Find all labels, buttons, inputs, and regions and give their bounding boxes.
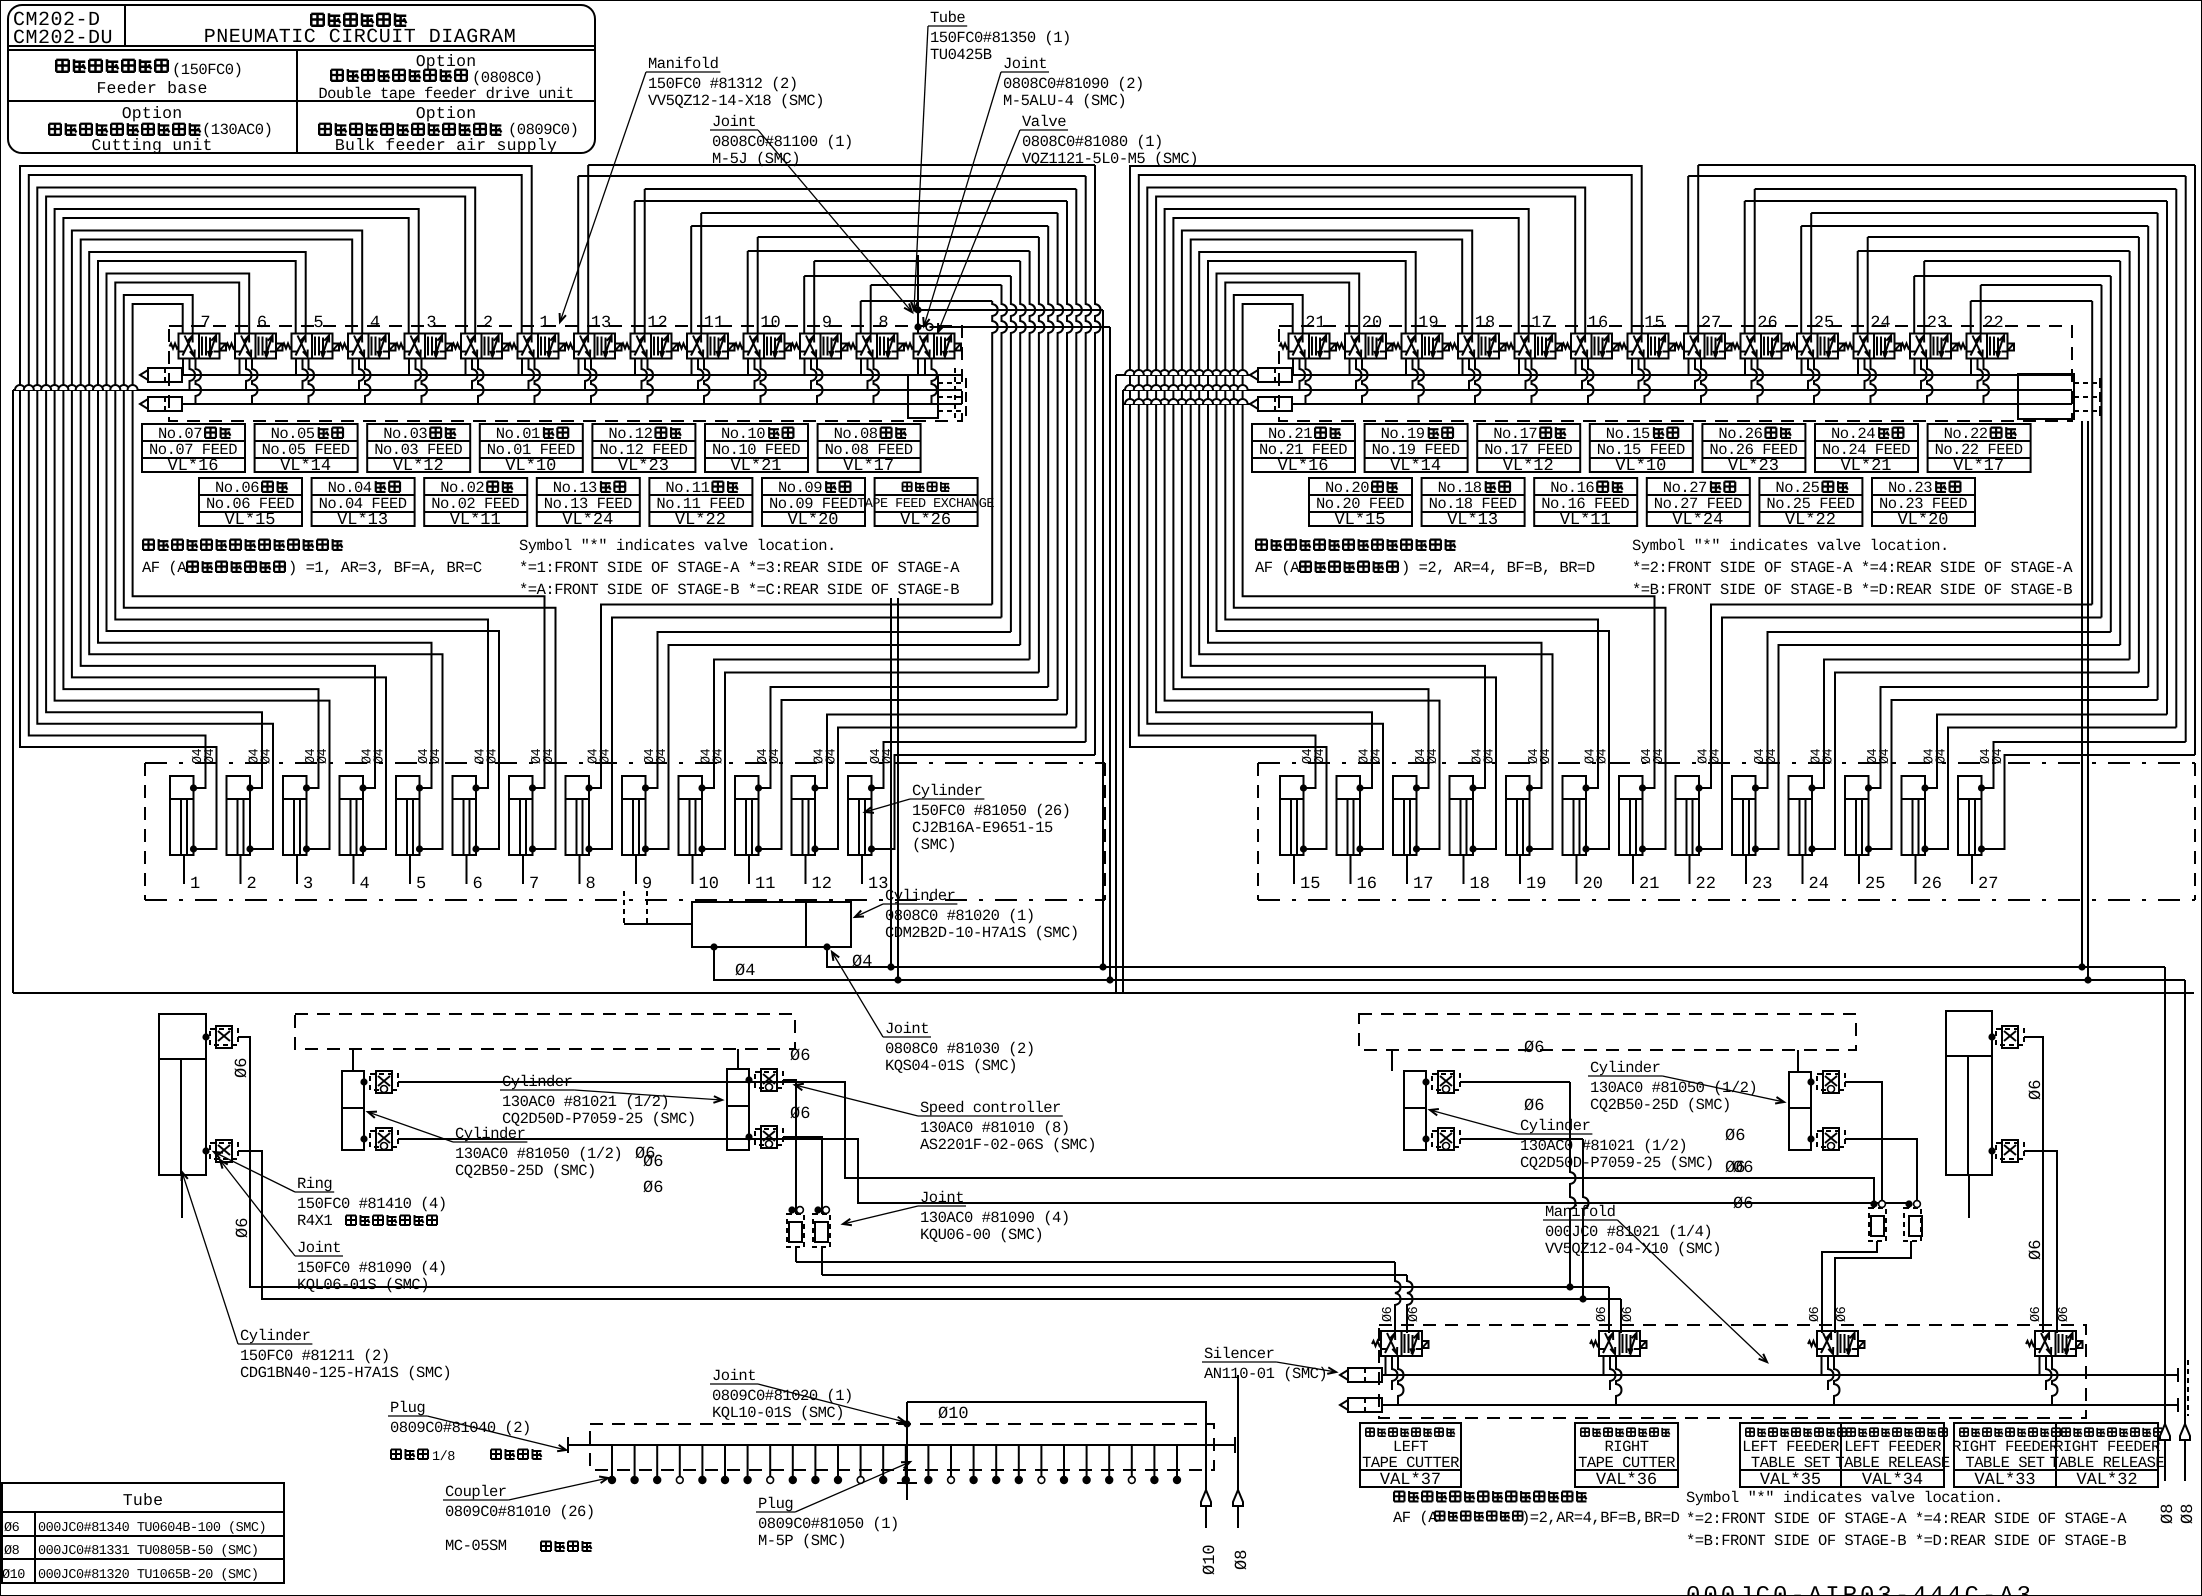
valve VL 7 [179,334,220,359]
svg-text:8: 8 [878,314,888,333]
bottom valve group dashed box [1379,1325,2086,1418]
cylinder 8 [566,776,590,855]
wire valve 23 right-stub to cylinder bottom port [1923,261,1925,334]
valve VL 13 [574,334,615,359]
node: tube/joint/valve junction [917,255,919,334]
svg-text:4: 4 [360,875,370,894]
svg-text:VL*24: VL*24 [562,511,613,530]
svg-text:Option: Option [416,104,477,123]
valve VL 27 [1684,334,1725,359]
svg-text:130AC0 #81010 (8): 130AC0 #81010 (8) [920,1119,1070,1137]
wire valve 21 left-stub to cylinder top port [1243,304,1655,788]
wire valve 27 right-stub to cylinder bottom port [1697,165,1699,334]
svg-text:TU0425B: TU0425B [930,46,992,64]
svg-text:130AC0 #81050 (1/2): 130AC0 #81050 (1/2) [1590,1079,1757,1097]
svg-text:4: 4 [370,314,380,333]
svg-text:18: 18 [1475,314,1495,333]
valve VL 9 [800,334,841,359]
svg-text:TABLE SET: TABLE SET [1751,1454,1830,1472]
cylinder 21 [1619,776,1643,855]
wire valve 24 left-stub to cylinder top port [1857,251,1859,334]
valve VL 25 [1797,334,1838,359]
speed controller G [1432,1074,1460,1090]
svg-text:KQL10-01S (SMC): KQL10-01S (SMC) [712,1404,844,1422]
svg-text:Valve: Valve [1022,113,1066,131]
wire valve 10 right-stub to cylinder bottom port [757,237,759,334]
svg-text:Ø4: Ø4 [825,748,840,764]
arrows bottom middle [1201,1490,1211,1528]
cylinder bank dashed boundary right [1258,762,2195,764]
svg-text:Ø4: Ø4 [1426,748,1441,764]
bottom buses + silencers [1340,1370,1348,1380]
wire valve 18 left-stub to cylinder top port [1191,240,1485,789]
svg-text:130AC0 #81021 (1/2): 130AC0 #81021 (1/2) [502,1093,669,1111]
svg-text:3: 3 [426,314,436,333]
svg-text:VAL*32: VAL*32 [2076,1471,2137,1490]
svg-text:VL*15: VL*15 [224,511,275,530]
svg-text:TABLE SET: TABLE SET [1965,1454,2044,1472]
svg-text:VAL*37: VAL*37 [1380,1471,1441,1490]
cylinder 24 [1789,776,1813,855]
svg-text:Ø4: Ø4 [712,748,727,764]
cylinder 19 [1506,776,1530,855]
wire valve 3 left-stub to cylinder top port [63,218,408,788]
svg-text:0809C0#81040 (2): 0809C0#81040 (2) [390,1419,531,1437]
svg-text:TAPE CUTTER: TAPE CUTTER [1362,1454,1459,1472]
svg-text:Tube: Tube [123,1491,163,1510]
svg-text:VL*23: VL*23 [1728,457,1779,476]
svg-text:Cylinder: Cylinder [502,1073,572,1091]
svg-text:VL*22: VL*22 [1785,511,1836,530]
svg-text:23: 23 [1752,875,1772,894]
svg-text:KQL06-01S (SMC): KQL06-01S (SMC) [297,1276,429,1294]
svg-text:9: 9 [822,314,832,333]
svg-text:R4X1: R4X1 [297,1212,332,1230]
wires down from right manifold block [2081,421,2083,967]
right small cylinder of left section [727,1069,749,1150]
svg-text:130AC0 #81050 (1/2): 130AC0 #81050 (1/2) [455,1145,622,1163]
wires right section [1460,1081,1570,1083]
svg-text:27: 27 [1701,314,1721,333]
svg-text:130AC0 #81021 (1/2): 130AC0 #81021 (1/2) [1520,1137,1687,1155]
svg-text:VL*12: VL*12 [1503,457,1554,476]
svg-text:150FC0 #81312 (2): 150FC0 #81312 (2) [648,75,798,93]
svg-text:Joint: Joint [712,1367,756,1385]
cylinder 12 [792,776,816,855]
valve VL 6 [235,334,276,359]
svg-text:*=2:FRONT SIDE OF STAGE-A *=4: *=2:FRONT SIDE OF STAGE-A *=4:REAR SIDE … [1632,559,2073,577]
svg-text:Ø4: Ø4 [735,962,755,981]
svg-text:6: 6 [257,314,267,333]
svg-text:000JC0#81340 TU0604B-100 (SMC): 000JC0#81340 TU0604B-100 (SMC) [38,1521,266,1536]
supply muffler 1 [1250,370,1258,380]
cylinder 27 [1958,776,1982,855]
wire valve 2 right-stub to cylinder bottom port [37,188,475,850]
svg-text:VAL*34: VAL*34 [1862,1471,1923,1490]
svg-text:PNEUMATIC CIRCUIT DIAGRAM: PNEUMATIC CIRCUIT DIAGRAM [204,26,517,49]
wire valve 4 left-stub to cylinder top port [81,240,375,789]
svg-text:Ø4: Ø4 [1935,748,1950,764]
svg-text:0808C0#81100 (1): 0808C0#81100 (1) [712,133,853,151]
svg-text:CJ2B16A-E9651-15: CJ2B16A-E9651-15 [912,819,1053,837]
svg-text:0808C0#81080 (1): 0808C0#81080 (1) [1022,133,1163,151]
title block [8,5,595,153]
cylinder 13 [848,776,872,855]
svg-text:VAL*36: VAL*36 [1596,1471,1657,1490]
valve VL 24 [1854,334,1895,359]
wire valve 1 left-stub to cylinder top port [29,175,522,788]
speed controller J [1817,1131,1845,1147]
svg-text:Ø4: Ø4 [1991,748,2006,764]
notes text [143,540,154,550]
wire valve 12 right-stub to cylinder bottom port [644,189,646,334]
svg-text:11: 11 [704,314,724,333]
svg-text:CM202-DU: CM202-DU [13,27,113,50]
wire valve 24 right-stub to cylinder bottom port [1867,237,1869,334]
svg-text:) =2, AR=4, BF=B, BR=D: ) =2, AR=4, BF=B, BR=D [1401,559,1595,577]
svg-text:7: 7 [529,875,539,894]
valve VL 16 [1571,334,1612,359]
svg-text:000JC0-AIR03-444C-A3: 000JC0-AIR03-444C-A3 [1686,1583,2034,1596]
valve VL 22 [1967,334,2008,359]
svg-text:3: 3 [303,875,313,894]
svg-text:Ø4: Ø4 [768,748,783,764]
cylinder 22 [1676,776,1700,855]
svg-text:Cutting unit: Cutting unit [91,136,212,155]
svg-text:12: 12 [647,314,667,333]
svg-text:Ring: Ring [297,1175,332,1193]
svg-text:VL*23: VL*23 [618,457,669,476]
svg-text:Ø10: Ø10 [938,1405,969,1424]
cylinder CQ2B50 right [1404,1071,1426,1150]
svg-text:Tube: Tube [930,9,965,27]
cylinder 0808C0 (horizontal) [692,902,851,947]
wires joints to valves [1822,1241,1877,1333]
svg-text:130AC0 #81090 (4): 130AC0 #81090 (4) [920,1209,1070,1227]
svg-text:Ø6: Ø6 [2029,1306,2044,1322]
svg-text:Ø4: Ø4 [316,748,331,764]
svg-text:Ø4: Ø4 [1370,748,1385,764]
wire valve 21 right-stub to cylinder bottom port [1234,295,1666,849]
cylinder 1 [170,776,194,855]
svg-text:7: 7 [200,314,210,333]
svg-text:Ø4: Ø4 [1313,748,1328,764]
svg-text:Coupler: Coupler [445,1483,507,1501]
svg-text:KQU06-00 (SMC): KQU06-00 (SMC) [920,1226,1043,1244]
valve VL 23 [1910,334,1951,359]
svg-text:VV5QZ12-04-X10 (SMC): VV5QZ12-04-X10 (SMC) [1545,1240,1721,1258]
cylinder 10 [679,776,703,855]
cylinder 23 [1732,776,1756,855]
tall cylinder right [1946,1011,1992,1175]
joint box KQU06 1 [787,1214,804,1247]
svg-text:Double tape feeder drive unit: Double tape feeder drive unit [318,85,573,103]
wire valve 22 left-stub to cylinder top port [1970,301,1972,334]
wire valve 6 left-stub to cylinder top port [115,283,488,789]
svg-text:MC-05SM: MC-05SM [445,1537,507,1555]
svg-text:VL*13: VL*13 [337,511,388,530]
svg-text:Ø6: Ø6 [635,1145,655,1164]
svg-text:VL*20: VL*20 [787,511,838,530]
svg-text:Ø4: Ø4 [373,748,388,764]
long wires to bottom-right valves [796,1261,1395,1263]
svg-text:CDM2B2D-10-H7A1S (SMC): CDM2B2D-10-H7A1S (SMC) [885,924,1079,942]
svg-text:VL*21: VL*21 [1840,457,1891,476]
svg-text:12: 12 [812,875,832,894]
valve VL 18 [1458,334,1499,359]
wire valve 18 right-stub to cylinder bottom port [1182,231,1496,850]
coupler drops [611,1445,613,1476]
wire from ports [714,947,2185,980]
svg-text:(SMC): (SMC) [912,836,956,854]
wire valve 11 left-stub to cylinder top port [690,226,692,334]
svg-text:22: 22 [1696,875,1716,894]
bottom-right notes [1394,1492,1404,1502]
bottom valve 2 [1599,1331,1640,1356]
svg-text:0809C0#81010 (26): 0809C0#81010 (26) [445,1503,595,1521]
svg-text:VL*10: VL*10 [505,457,556,476]
svg-text:AF (A: AF (A [1393,1509,1438,1527]
inter-block verticals [1102,310,1104,967]
svg-text:Speed controller: Speed controller [920,1099,1061,1117]
cylinder 26 [1902,776,1926,855]
svg-text:Ø6: Ø6 [1524,1097,1544,1116]
svg-text:AS2201F-02-06S (SMC): AS2201F-02-06S (SMC) [920,1136,1096,1154]
svg-text:Cylinder: Cylinder [912,782,982,800]
svg-text:Plug: Plug [758,1495,793,1513]
svg-text:16: 16 [1588,314,1608,333]
svg-text:)=2,AR=4,BF=B,BR=D: )=2,AR=4,BF=B,BR=D [1521,1509,1680,1527]
wire valve 7 right-stub to cylinder bottom port [124,295,556,849]
cylinder 9 [622,776,646,855]
wire valve 3 right-stub to cylinder bottom port [55,209,419,849]
valve VL 11 [687,334,728,359]
svg-text:TAPE FEED EXCHANGE: TAPE FEED EXCHANGE [857,497,994,512]
wire to bottom right arrows [2164,967,2166,1424]
wires from small cyl controllers [398,1082,1874,1208]
wire valve 13 right-stub to cylinder bottom port [587,165,589,334]
cylinder bank dashed boundary left [145,762,1105,764]
svg-text:Manifold: Manifold [1545,1203,1615,1221]
valve VL 15 [1628,334,1669,359]
coupler rail [568,1444,1235,1446]
svg-text:Cylinder: Cylinder [240,1327,310,1345]
svg-text:11: 11 [755,875,775,894]
svg-text:Joint: Joint [920,1189,964,1207]
cylinder 6 [453,776,477,855]
svg-text:VV5QZ12-14-X18 (SMC): VV5QZ12-14-X18 (SMC) [648,92,824,110]
bottom valve 1 [1381,1331,1422,1356]
svg-text:Ø6: Ø6 [643,1179,663,1198]
svg-text:Ø8: Ø8 [2179,1504,2198,1524]
notes text [1256,540,1267,550]
speed controller L [1996,1143,2024,1159]
label boxes row2 [199,478,302,526]
wire valve 7 left-stub to cylinder top port [133,304,545,788]
svg-text:000JC0#81331 TU0805B-50 (SMC): 000JC0#81331 TU0805B-50 (SMC) [38,1544,258,1559]
svg-text:CQ2D50D-P7059-25 (SMC): CQ2D50D-P7059-25 (SMC) [1520,1154,1714,1172]
wire valve 15 left-stub to cylinder top port [1139,175,1632,788]
svg-text:0808C0 #81020 (1): 0808C0 #81020 (1) [885,907,1035,925]
svg-text:M-5ALU-4 (SMC): M-5ALU-4 (SMC) [1003,92,1126,110]
val label boxes [1360,1423,1461,1487]
svg-text:VL*20: VL*20 [1897,511,1948,530]
valve manifold dashed boundary [1279,326,2072,421]
wire valve 19 left-stub to cylinder top port [1208,261,1542,788]
svg-text:150FC0#81350 (1): 150FC0#81350 (1) [930,29,1071,47]
joint KQL10 node [903,1420,910,1427]
wires to joint boxes [783,1080,796,1214]
svg-text:24: 24 [1870,314,1890,333]
svg-text:CQ2B50-25D (SMC): CQ2B50-25D (SMC) [1590,1096,1731,1114]
svg-text:CDG1BN40-125-H7A1S (SMC): CDG1BN40-125-H7A1S (SMC) [240,1364,451,1382]
svg-text:15: 15 [1644,314,1664,333]
svg-text:) =1, AR=3, BF=A, BR=C: ) =1, AR=3, BF=A, BR=C [288,559,482,577]
svg-text:Ø6: Ø6 [1733,1195,1753,1214]
speed controller B [210,1143,238,1159]
svg-text:*=B:FRONT SIDE OF STAGE-B *=D: *=B:FRONT SIDE OF STAGE-B *=D:REAR SIDE … [1686,1532,2126,1550]
svg-text:20: 20 [1362,314,1382,333]
svg-text:VL*14: VL*14 [1390,457,1441,476]
svg-text:VL*16: VL*16 [1277,457,1328,476]
svg-text:1: 1 [539,314,549,333]
svg-text:17: 17 [1413,875,1433,894]
svg-text:2: 2 [247,875,257,894]
svg-text:VL*17: VL*17 [843,457,894,476]
svg-text:Option: Option [416,52,477,71]
svg-text:Ø10: Ø10 [2,1568,25,1583]
svg-text:Symbol "*" indicates valve loc: Symbol "*" indicates valve location. [1632,537,1949,555]
speed controller E [755,1072,783,1088]
svg-text:Cylinder: Cylinder [885,887,955,905]
svg-text:17: 17 [1531,314,1551,333]
svg-text:Ø4: Ø4 [1822,748,1837,764]
svg-text:CQ2B50-25D (SMC): CQ2B50-25D (SMC) [455,1162,596,1180]
svg-text:VQZ1121-5L0-M5 (SMC): VQZ1121-5L0-M5 (SMC) [1022,150,1198,168]
svg-text:Symbol "*" indicates valve loc: Symbol "*" indicates valve location. [1686,1489,2003,1507]
svg-text:5: 5 [416,875,426,894]
svg-text:Bulk feeder air supply: Bulk feeder air supply [335,136,557,155]
cylinder 15 [1280,776,1304,855]
speed controller K [1996,1029,2024,1045]
wire valve 8 right-stub to cylinder bottom port [870,285,872,334]
svg-text:27: 27 [1978,875,1998,894]
wire valve 9 left-stub to cylinder top port [803,276,805,334]
muffler line extensions with hops [1116,374,1250,376]
svg-text:VAL*35: VAL*35 [1760,1471,1821,1490]
svg-text:23: 23 [1927,314,1947,333]
plug M-5P [897,1482,917,1484]
speed controller C [370,1074,398,1090]
svg-text:150FC0 #81050 (26): 150FC0 #81050 (26) [912,802,1070,820]
svg-text:Ø6: Ø6 [1407,1306,1422,1322]
svg-text:Ø4: Ø4 [260,748,275,764]
label boxes row1 [1252,424,1355,472]
wire valve 26 right-stub to cylinder bottom port [1754,189,1756,334]
svg-text:6: 6 [473,875,483,894]
svg-text:VL*11: VL*11 [450,511,501,530]
valve manifold dashed boundary [169,326,962,421]
bus with hops [13,389,962,391]
wire valve 20 left-stub to cylinder top port [1225,283,1598,789]
wire valve 5 left-stub to cylinder top port [98,261,432,788]
svg-text:Ø4: Ø4 [1765,748,1780,764]
svg-text:26: 26 [1757,314,1777,333]
svg-text:Ø6: Ø6 [1621,1306,1636,1322]
cylinder 3 [283,776,307,855]
svg-text:TABLE RELEASE: TABLE RELEASE [2050,1454,2165,1472]
svg-text:21: 21 [1639,875,1659,894]
wire valve 19 right-stub to cylinder bottom port [1199,252,1552,849]
valve VL 10 [744,334,785,359]
svg-text:22: 22 [1983,314,2003,333]
cylinder 4 [340,776,364,855]
cylinder CDG1BN40 (tall, left) [159,1014,206,1175]
svg-text:Cylinder: Cylinder [1590,1059,1660,1077]
svg-text:15: 15 [1300,875,1320,894]
wire valve 17 left-stub to cylinder top port [1173,218,1518,788]
valve VL 26 [1741,334,1782,359]
wire valve 11 right-stub to cylinder bottom port [700,213,702,334]
svg-text:Ø6: Ø6 [1835,1306,1850,1322]
svg-text:M-5P (SMC): M-5P (SMC) [758,1532,846,1550]
svg-text:Ø8: Ø8 [1233,1550,1252,1570]
svg-text:25: 25 [1865,875,1885,894]
svg-text:VL*26: VL*26 [900,511,951,530]
cylinder 25 [1845,776,1869,855]
valve VL 4 [348,334,389,359]
cylinder 20 [1563,776,1587,855]
wire valve 8 left-stub to cylinder top port [860,301,862,334]
bottom right arrows [2160,1424,2170,1481]
svg-text:000JC0#81320 TU1065B-20 (SMC): 000JC0#81320 TU1065B-20 (SMC) [38,1568,258,1583]
wire valve 5 right-stub to cylinder bottom port [89,252,442,849]
svg-text:Ø6: Ø6 [4,1521,20,1536]
supply muffler 2 [140,399,148,409]
right small cylinder 2 [1789,1072,1811,1150]
valve VL 21 [1289,334,1330,359]
svg-text:5: 5 [313,314,323,333]
cylinder 18 [1450,776,1474,855]
svg-text:1/8: 1/8 [432,1450,455,1465]
joint box KQU06 2 [813,1214,830,1247]
svg-text:Feeder base: Feeder base [96,79,207,98]
svg-text:Ø6: Ø6 [1725,1159,1745,1178]
wire valve 10 left-stub to cylinder top port [747,251,749,334]
svg-text:10: 10 [760,314,780,333]
svg-text:150FC0 #81410 (4): 150FC0 #81410 (4) [297,1195,447,1213]
svg-text:Ø6: Ø6 [790,1047,810,1066]
svg-text:19: 19 [1418,314,1438,333]
svg-text:Ø4: Ø4 [203,748,218,764]
bus with hops [1123,389,2072,391]
cylinder 2 [227,776,251,855]
valve VL 19 [1402,334,1443,359]
label boxes row2 [1309,478,1412,526]
svg-text:VL*10: VL*10 [1615,457,1666,476]
wire valve 16 right-stub to cylinder bottom port [1147,188,1585,850]
speed controller A [210,1029,238,1045]
joint boxes right [1869,1208,1886,1241]
wire valve 12 left-stub to cylinder top port [634,201,636,334]
svg-text:20: 20 [1583,875,1603,894]
svg-text:Ø4: Ø4 [542,748,557,764]
svg-text:000JC0 #81021 (1/4): 000JC0 #81021 (1/4) [1545,1223,1712,1241]
svg-text:Manifold: Manifold [648,55,718,73]
svg-text:0809C0#81050 (1): 0809C0#81050 (1) [758,1515,899,1533]
svg-text:Cylinder: Cylinder [455,1125,525,1143]
svg-text:8: 8 [586,875,596,894]
